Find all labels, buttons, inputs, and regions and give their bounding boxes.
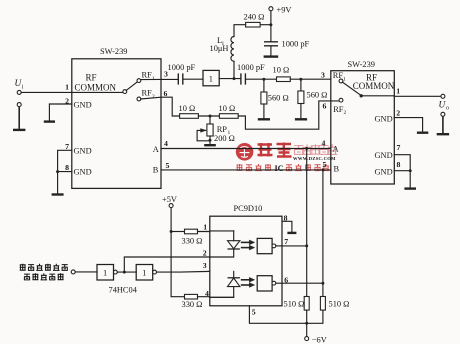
svg-text:74HC04: 74HC04 xyxy=(109,285,138,294)
capacitor 1000pF C2 xyxy=(237,63,265,84)
LED D1 upper xyxy=(210,231,240,257)
svg-text:GND: GND xyxy=(375,167,393,176)
svg-text:7: 7 xyxy=(284,237,288,246)
terminal -6V xyxy=(305,335,327,344)
svg-text:4: 4 xyxy=(205,289,209,298)
svg-text:GND: GND xyxy=(375,115,393,124)
resistor 10 ohm no.2 xyxy=(179,104,199,118)
label RF1 left box xyxy=(142,71,156,82)
svg-text:2: 2 xyxy=(152,94,155,100)
resistor 510 ohm no.1 xyxy=(284,297,310,311)
wire +9V down to node xyxy=(270,11,272,25)
svg-text:RF: RF xyxy=(142,89,153,98)
label RF2 left box xyxy=(142,89,156,100)
label RF1 right box xyxy=(333,71,346,82)
watermark logo disc xyxy=(236,143,254,161)
svg-text:2: 2 xyxy=(203,248,207,257)
ground below Uo xyxy=(437,133,449,135)
svg-text:RF: RF xyxy=(142,71,153,80)
svg-text:2: 2 xyxy=(396,108,400,117)
svg-text:B: B xyxy=(153,166,159,175)
node pin6 riser xyxy=(321,282,324,285)
ground 560-1 xyxy=(258,118,270,120)
watermark slogan 全球最大IC采购网站 xyxy=(237,164,272,171)
ground 560-2 xyxy=(295,118,307,120)
wire 240 ohm left lead to inductor top xyxy=(234,25,246,37)
wire to -6V terminal xyxy=(306,323,308,336)
svg-text:GND: GND xyxy=(74,168,92,177)
svg-text:WWW.DZSC.COM: WWW.DZSC.COM xyxy=(293,156,336,161)
wire RP1 to ground xyxy=(209,140,211,144)
node 560-1 xyxy=(262,78,265,81)
svg-text:1: 1 xyxy=(65,83,69,92)
svg-text:GND: GND xyxy=(375,151,393,160)
wire 10ohm to right box pin3 xyxy=(290,78,331,80)
svg-text:560 Ω: 560 Ω xyxy=(307,90,328,99)
svg-text:2: 2 xyxy=(344,110,347,116)
ground RP1 xyxy=(204,144,216,146)
watermark big characters 维库 xyxy=(258,143,292,157)
wire pins 7,8 to ground right xyxy=(394,155,410,188)
ground pin8 xyxy=(287,232,296,234)
terminal Uo xyxy=(439,94,450,111)
junction pins 7-8 right xyxy=(409,169,412,172)
svg-text:RF: RF xyxy=(86,73,97,83)
svg-text:A: A xyxy=(333,144,339,153)
IC U1 SW-239 left box xyxy=(72,47,161,188)
ground below decoupling cap xyxy=(264,55,279,57)
svg-text:1000 pF: 1000 pF xyxy=(168,63,196,72)
wire between 10 ohms xyxy=(198,115,219,117)
node -6V xyxy=(305,322,308,325)
svg-text:B: B xyxy=(334,165,340,174)
wire 510 bottoms join xyxy=(307,310,323,323)
svg-text:3: 3 xyxy=(321,71,325,80)
resistor 330 ohm upper xyxy=(182,229,203,245)
photodetector lower xyxy=(257,276,282,291)
svg-text:+5V: +5V xyxy=(162,195,177,204)
switch RF1 contact circle left xyxy=(137,79,141,83)
wire cap to amp box xyxy=(183,78,203,80)
resistor 10 ohm RF line xyxy=(273,66,291,82)
wire 240 ohm right lead xyxy=(260,24,271,26)
resistor 240 ohm xyxy=(244,12,265,27)
switch arm left box xyxy=(126,82,137,91)
svg-text:10 Ω: 10 Ω xyxy=(179,104,196,113)
wire pin6 to riser B xyxy=(282,282,323,284)
node at +9V rail xyxy=(269,23,272,26)
light arrows upper xyxy=(241,240,255,250)
svg-text:PC9D10: PC9D10 xyxy=(234,204,263,213)
+9V terminal xyxy=(269,6,292,15)
svg-text:COMMON: COMMON xyxy=(353,81,395,91)
ground pins 7-8 left xyxy=(52,193,64,195)
inductor L1 10uH xyxy=(210,36,235,61)
svg-text:7: 7 xyxy=(65,142,69,151)
resistor 560 ohm no.2 xyxy=(298,79,327,118)
node 560-2 xyxy=(299,78,302,81)
ground pin2 right xyxy=(417,131,428,133)
wire 330 upper to pin1 xyxy=(198,230,234,233)
svg-text:330 Ω: 330 Ω xyxy=(182,236,203,245)
svg-text:GND: GND xyxy=(74,146,92,155)
svg-text:+9V: +9V xyxy=(277,6,292,15)
svg-text:330 Ω: 330 Ω xyxy=(182,300,203,309)
wire cap2 to 10ohm xyxy=(246,78,277,80)
wire inverter1 to inverter2 xyxy=(117,271,136,273)
terminal Uo ground xyxy=(441,112,445,133)
svg-text:4: 4 xyxy=(322,139,326,148)
wire +5V vertical xyxy=(171,208,184,297)
wire pin1 to Uo xyxy=(363,95,441,98)
switch RF2 contact circle left xyxy=(137,97,141,101)
node branch to pin2 xyxy=(123,271,126,274)
svg-text:240 Ω: 240 Ω xyxy=(244,12,265,21)
resistor 510 ohm no.2 xyxy=(320,297,349,311)
label control signal line2 xyxy=(24,273,64,280)
inverter 1 74HC04 xyxy=(97,265,117,281)
svg-text:−6V: −6V xyxy=(312,335,327,344)
svg-text:10 Ω: 10 Ω xyxy=(273,66,290,75)
svg-text:8: 8 xyxy=(65,163,69,172)
ground below Ui xyxy=(13,129,25,131)
label RF COMMON right xyxy=(353,72,395,91)
svg-text:1: 1 xyxy=(203,222,207,231)
resistor 560 ohm no.1 xyxy=(261,79,289,118)
svg-text:SW-239: SW-239 xyxy=(348,60,375,69)
wire A line xyxy=(161,148,331,150)
wire pin2 to ground xyxy=(49,104,71,121)
junction pins 7-8 left xyxy=(56,170,59,173)
switch common contact circle xyxy=(123,90,127,94)
control input terminal xyxy=(71,270,75,274)
terminal Ui ground xyxy=(17,103,21,129)
wire inverter2 to pin3 xyxy=(157,270,210,273)
svg-text:510 Ω: 510 Ω xyxy=(284,300,305,309)
svg-text:1000 pF: 1000 pF xyxy=(237,63,265,72)
svg-text:1: 1 xyxy=(209,74,213,83)
svg-text:560 Ω: 560 Ω xyxy=(268,93,289,102)
wire pins 7,8 to ground left xyxy=(58,150,72,193)
resistor 10 ohm no.3 xyxy=(219,104,239,118)
resistor 330 ohm lower xyxy=(182,294,203,308)
svg-text:3: 3 xyxy=(203,261,207,270)
inverter 2 74HC04 xyxy=(136,265,156,281)
label RF2 right box xyxy=(333,105,346,116)
svg-text:SW-239: SW-239 xyxy=(100,47,127,56)
wire 10ohm3 to right box RF2 riser xyxy=(238,101,339,129)
svg-text:8: 8 xyxy=(397,160,401,169)
switch common dot right xyxy=(360,94,363,97)
svg-text:RP: RP xyxy=(217,125,228,134)
svg-text:1: 1 xyxy=(396,86,400,95)
svg-text:5: 5 xyxy=(252,307,256,316)
svg-text:IC: IC xyxy=(275,164,284,173)
node RP1 bottom xyxy=(209,139,212,142)
node A riser xyxy=(305,147,308,150)
switch RF2 contact circle right xyxy=(339,98,343,102)
wire riser A vertical xyxy=(306,149,308,297)
switch arm right box xyxy=(342,82,360,95)
wire pin5 down and right xyxy=(249,306,307,324)
svg-text:1: 1 xyxy=(103,269,107,278)
svg-text:1: 1 xyxy=(142,269,146,278)
svg-text:o: o xyxy=(446,106,449,112)
wire pin2 to ground right xyxy=(394,118,422,132)
svg-text:6: 6 xyxy=(323,102,327,111)
svg-text:200 Ω: 200 Ω xyxy=(214,134,235,143)
svg-text:10 Ω: 10 Ω xyxy=(219,104,236,113)
svg-text:10μH: 10μH xyxy=(210,44,229,53)
svg-text:1: 1 xyxy=(343,76,346,82)
ground pin2 left xyxy=(44,120,55,122)
node B riser xyxy=(321,168,324,171)
capacitor 1000pF decoupling top xyxy=(264,25,310,56)
photodetector upper xyxy=(257,238,282,253)
node L1 junction xyxy=(233,77,236,80)
node pin7 riser xyxy=(305,244,308,247)
svg-text:510 Ω: 510 Ω xyxy=(329,300,350,309)
svg-text:GND: GND xyxy=(74,101,92,110)
LED D2 lower xyxy=(210,271,240,297)
svg-text:5: 5 xyxy=(323,160,327,169)
wire B line xyxy=(161,169,331,171)
svg-text:RF: RF xyxy=(333,105,344,114)
capacitor 1000pF C1 xyxy=(168,63,196,85)
svg-text:1000 pF: 1000 pF xyxy=(282,40,310,49)
node RP1 top xyxy=(209,115,212,118)
IC PC9D10 box xyxy=(210,204,282,306)
svg-text:4: 4 xyxy=(164,139,168,148)
wire riser B vertical xyxy=(322,170,324,297)
svg-text:7: 7 xyxy=(397,143,401,152)
wire amp to node xyxy=(219,78,240,80)
svg-text:6: 6 xyxy=(164,89,168,98)
IC U2 SW-239 right box xyxy=(331,60,395,184)
wire pin7 to riser A xyxy=(282,245,307,247)
+5V terminal xyxy=(162,195,177,207)
svg-text:5: 5 xyxy=(166,161,170,170)
wire 330 lower to pin4 xyxy=(198,296,234,299)
wire pin8 to ground xyxy=(282,221,292,232)
terminal Ui xyxy=(15,79,24,94)
wire Ui to switch common xyxy=(21,91,123,93)
wire RF2 contact to pin6 jog down xyxy=(141,97,180,116)
svg-text:COMMON: COMMON xyxy=(75,83,117,93)
wire input to inverter1 xyxy=(75,271,97,273)
wire branch up to pin2 line xyxy=(124,257,210,272)
node 330 upper branch xyxy=(170,230,173,233)
potentiometer RP1 200 ohm xyxy=(197,116,235,143)
label control signal line1 xyxy=(20,264,68,271)
switch RF1 contact circle right xyxy=(339,79,343,83)
amplifier stage box 1 xyxy=(203,70,219,85)
watermark outline characters 电子市场网 xyxy=(294,144,337,155)
svg-text:A: A xyxy=(153,145,159,154)
wire to 330 upper xyxy=(171,231,184,233)
light arrows lower xyxy=(241,277,255,287)
label RF COMMON left xyxy=(75,73,117,93)
wire RF1 pin3 to cap xyxy=(141,78,178,80)
ground pins 7-8 right xyxy=(404,187,416,189)
wire inductor bottom to RF line node xyxy=(233,61,235,78)
